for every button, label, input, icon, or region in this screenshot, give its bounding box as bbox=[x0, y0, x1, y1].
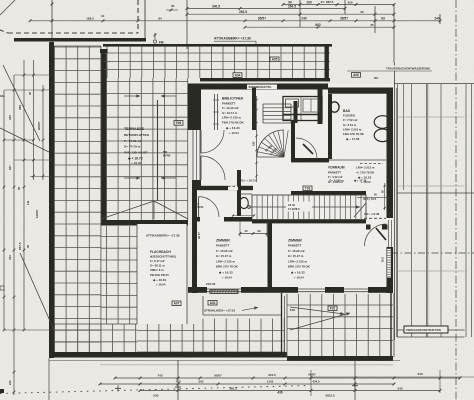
terrace inner grid bbox=[106, 78, 108, 220]
slope arrow terrace 1 bbox=[124, 95, 140, 97]
terrace outer west wall bbox=[49, 42, 54, 358]
left dim vline 3 bbox=[23, 60, 25, 330]
lower terrace band west bbox=[54, 324, 56, 352]
west window lines bbox=[192, 130, 194, 180]
wall wc west bbox=[237, 170, 241, 216]
gutter label bbox=[384, 66, 434, 71]
stair east dim vline bbox=[384, 183, 386, 210]
left edge dark mark bbox=[0, 389, 4, 393]
terrace label E06 bbox=[174, 121, 183, 126]
slope arrow terrace 3 bbox=[124, 177, 140, 179]
double door arc west lower bbox=[201, 156, 225, 180]
pergola canopy south edge bbox=[200, 78, 330, 81]
south wall bbox=[188, 287, 393, 293]
diagonal D3 bbox=[0, 128, 49, 152]
wall zimmer north bbox=[193, 217, 253, 222]
facade double line east bbox=[394, 63, 396, 340]
slope arrow terrace 2 bbox=[161, 95, 176, 97]
south wall window gap 3 bbox=[344, 287, 368, 293]
south wall window gap 1 bbox=[207, 287, 241, 293]
zimmer1 dim line bbox=[239, 221, 241, 237]
left dim vline 2 bbox=[13, 75, 15, 395]
top vertical dimension line x300 bbox=[299, 0, 301, 27]
lower terrace band center bbox=[202, 319, 204, 353]
top vertical dimension line x394 bbox=[393, 4, 395, 63]
diagonal D1 bbox=[3, 65, 40, 141]
window sill 3 bbox=[344, 288, 368, 290]
parapet joint bbox=[100, 49, 108, 53]
double door arc west upper bbox=[201, 130, 224, 153]
skylight hip lines bbox=[101, 201, 154, 219]
stair upper flight treads bbox=[263, 103, 291, 105]
building floor slab bbox=[192, 84, 393, 293]
pergola canopy top edge bbox=[103, 44, 332, 47]
top vertical dimension line x440 bbox=[439, 14, 441, 24]
axis dash-dot bottom bbox=[0, 386, 310, 394]
terrace inner west wall bbox=[101, 52, 107, 222]
straight staircase bbox=[252, 195, 366, 220]
door jamb post east bbox=[382, 225, 388, 230]
stair inner dim line bbox=[256, 96, 258, 182]
dimension line top row 4 (long) bbox=[30, 20, 440, 22]
window label A06 bbox=[352, 73, 361, 78]
north wall label gap bbox=[247, 85, 277, 90]
boundary dashed vertical bbox=[137, 0, 139, 33]
balcony east wall bbox=[390, 293, 392, 357]
label A07 bbox=[172, 301, 181, 306]
bottom dim line 2 bbox=[100, 383, 394, 385]
bottom vline x178 bbox=[177, 360, 179, 400]
wall stair north bbox=[291, 191, 366, 195]
bottom dim line 3 bbox=[140, 390, 440, 392]
inner terrace south wall bbox=[101, 220, 188, 226]
balcony grid bbox=[286, 294, 288, 357]
left dim vline 1 bbox=[3, 90, 5, 330]
window sill 1 bbox=[207, 288, 241, 290]
top vertical dimension line x375 bbox=[374, 6, 376, 33]
stair core wall bbox=[294, 101, 298, 123]
sonnenschutz box bbox=[210, 290, 238, 293]
roof hatch area (east) bbox=[397, 84, 399, 337]
vorraum door arc bbox=[296, 138, 317, 159]
top vertical dimension line x345 bbox=[344, 0, 346, 14]
bath tub oval 2 bbox=[374, 129, 391, 142]
east wall window hatch bbox=[387, 249, 391, 279]
strahlkies boundary bbox=[203, 314, 282, 316]
pergola canopy east edge bbox=[325, 46, 329, 81]
window label A05 bbox=[270, 57, 279, 62]
top vertical dimension line x187 bbox=[186, 0, 188, 49]
wall bad west bbox=[328, 94, 332, 159]
bath circle fixture bbox=[330, 102, 339, 112]
wall zimmer north door gap bbox=[200, 217, 224, 222]
bottom dim line 1 bbox=[115, 377, 460, 379]
terrace drain line bbox=[157, 100, 159, 201]
dimension line top row 2 bbox=[187, 8, 345, 10]
wall zimmer2 north bbox=[252, 220, 366, 224]
terrace grid west strip bbox=[54, 46, 56, 352]
balcony slope arrow 1 bbox=[290, 307, 344, 314]
balcony south wall bbox=[287, 356, 393, 361]
wall vorraum west bbox=[291, 121, 295, 158]
radiator library bbox=[214, 94, 216, 130]
north wall west segment bbox=[192, 84, 328, 90]
left dim vline 4 bbox=[33, 60, 35, 180]
boundary dashed line (north) bbox=[8, 32, 138, 34]
left dim vline 5 bbox=[42, 85, 44, 180]
window sill 2 bbox=[298, 288, 325, 290]
slope arrow terrace 4 bbox=[161, 177, 176, 179]
wall library south dashes bbox=[228, 186, 238, 190]
bottom right dim line bbox=[310, 376, 474, 378]
bottom vline x311 bbox=[310, 370, 312, 396]
terrace west strip top joint bbox=[54, 45, 101, 47]
wall library/bath bbox=[318, 88, 323, 125]
west wall zimmer segment bbox=[192, 190, 197, 293]
bottom terrace south wall bbox=[49, 352, 287, 358]
north wall east segment (BAD) bbox=[328, 88, 393, 94]
spiral staircase fan bbox=[257, 130, 284, 157]
west wall (library) lower bbox=[192, 180, 201, 190]
diagonal D2 bbox=[20, 253, 54, 330]
south wall window gap 2 bbox=[298, 287, 325, 293]
east wall bbox=[387, 88, 394, 294]
wall between zimmer rooms bbox=[268, 221, 273, 287]
terrace grid south-west block bbox=[106, 226, 108, 324]
bottom vline x440 bbox=[439, 370, 441, 393]
dimension line top row 5 bbox=[245, 26, 394, 28]
dimension line top row 1 bbox=[283, 4, 356, 6]
wall library south bbox=[198, 186, 253, 190]
west wall (library) upper bbox=[188, 84, 201, 131]
door jamb post west bbox=[366, 225, 371, 230]
bottom slab line bbox=[49, 360, 400, 362]
survey point FB bbox=[153, 40, 156, 43]
east wall door gap bbox=[387, 218, 394, 247]
left dimension ticks bbox=[23, 74, 26, 77]
label A03 bbox=[208, 300, 217, 305]
balcony slope arrow 2 bbox=[290, 313, 350, 330]
terrace north parapet wall bbox=[14, 38, 146, 42]
axis dash-dot line east bbox=[455, 0, 457, 400]
construction label bbox=[404, 326, 448, 333]
bath tub oval 1 bbox=[374, 116, 391, 129]
dimension line top row 3 bbox=[187, 13, 394, 15]
door arc east wall bbox=[365, 224, 387, 246]
wall library east bbox=[252, 88, 256, 131]
window label A04 bbox=[233, 73, 242, 78]
door label T03 bbox=[303, 186, 312, 191]
top vertical line x145 bbox=[144, 0, 146, 38]
left edge mark bbox=[0, 286, 4, 290]
wall vorraum north bbox=[291, 158, 329, 162]
wc fixture bbox=[240, 197, 249, 208]
wardrobe cabinet bbox=[283, 97, 322, 121]
corner slash top-left bbox=[0, 0, 15, 15]
bottom vline x49 bbox=[48, 358, 50, 400]
top vertical dimension line x52 bbox=[51, 0, 53, 42]
bottom vline x355 bbox=[354, 360, 356, 400]
pergola canopy grid bbox=[106, 47, 108, 78]
flachdach panel bbox=[137, 224, 187, 324]
door arc zimmer 1 bbox=[199, 197, 219, 217]
threshold dashes stair east bbox=[364, 217, 386, 219]
threshold dashes vorraum bbox=[360, 163, 383, 165]
